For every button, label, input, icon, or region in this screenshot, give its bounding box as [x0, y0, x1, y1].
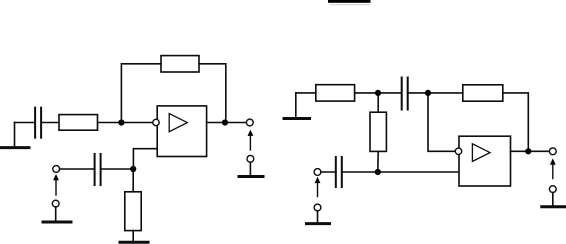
wire N4 to C3 — [378, 92, 402, 94]
resistor R1 — [59, 115, 98, 131]
resistor R2 (feedback) — [161, 56, 199, 72]
resistor R6 — [370, 112, 386, 151]
terminal right input lower — [314, 204, 321, 211]
terminal input2 lower — [52, 200, 59, 207]
title underline — [328, 0, 371, 5]
wire N5 to R5 — [428, 92, 463, 94]
ground G5 (right top) — [284, 93, 310, 119]
wire C2 to node N3 — [101, 168, 134, 170]
wire G1 to C1 — [15, 122, 36, 124]
ground G3 (below R3) — [120, 241, 148, 244]
op-amp U1 input bubble — [153, 119, 159, 125]
wire op-amp U2 output — [511, 150, 550, 152]
arrow output voltage — [248, 130, 254, 150]
wire R3 to ground — [132, 231, 134, 241]
wire feedback up from N1 — [121, 64, 161, 123]
arrow right input voltage — [315, 177, 321, 197]
node N3 — [130, 166, 136, 172]
node N2 (output node) — [222, 119, 228, 125]
wire op-amp output — [207, 122, 247, 124]
ground G6 (right output) — [542, 193, 565, 207]
arrow input2 voltage — [53, 174, 59, 195]
node N4 — [375, 90, 381, 96]
wire feedback down to output — [199, 64, 226, 123]
op-amp U2 input bubble — [455, 148, 461, 154]
capacitor C1 — [35, 108, 41, 138]
wire right input terminal to C4 — [321, 171, 336, 173]
ground G2 (left output) — [239, 162, 263, 176]
resistor R4 — [316, 85, 355, 101]
wire N5 down to op-amp bubble — [428, 93, 455, 151]
terminal right output lower — [549, 186, 556, 193]
wire N3 to R3 — [132, 169, 134, 192]
wire C4 to node N6 — [342, 171, 378, 173]
wire N6 to op-amp U2 input — [378, 171, 459, 173]
wire G5 to R4 — [296, 92, 316, 94]
ground G1 (left input coupling) — [2, 123, 30, 148]
resistor R5 — [463, 85, 503, 101]
capacitor C3 — [402, 78, 408, 110]
wire R4 to node N4 — [355, 92, 378, 94]
wire N3 to op-amp lower input — [133, 149, 157, 169]
node N7 (right output node) — [525, 148, 531, 154]
terminal output upper — [246, 119, 253, 126]
ground G7 (right input) — [307, 211, 330, 224]
terminal right output upper — [549, 148, 556, 155]
capacitor C4 — [336, 157, 342, 187]
wire N4 to R6 — [377, 93, 379, 112]
wire R6 to node N6 — [377, 151, 379, 172]
wire C3 to node N5 — [408, 92, 428, 94]
wire C1 to R1 — [41, 122, 59, 124]
arrow right output voltage — [550, 158, 556, 178]
ground G4 (input2) — [43, 207, 71, 222]
terminal input2 upper — [53, 166, 60, 173]
node N6 — [375, 169, 381, 175]
terminal right input upper — [314, 169, 321, 176]
capacitor C2 — [95, 154, 101, 185]
resistor R3 — [125, 192, 141, 231]
wire R5 down to output node — [503, 93, 529, 151]
node N5 — [425, 90, 431, 96]
wire R1 to node N1 — [98, 122, 154, 124]
terminal output lower — [247, 155, 254, 162]
op-amp U2 — [459, 136, 511, 186]
op-amp U1 — [157, 106, 206, 157]
wire input2 terminal to C2 — [60, 168, 95, 170]
node N1 (summing point) — [118, 119, 124, 125]
